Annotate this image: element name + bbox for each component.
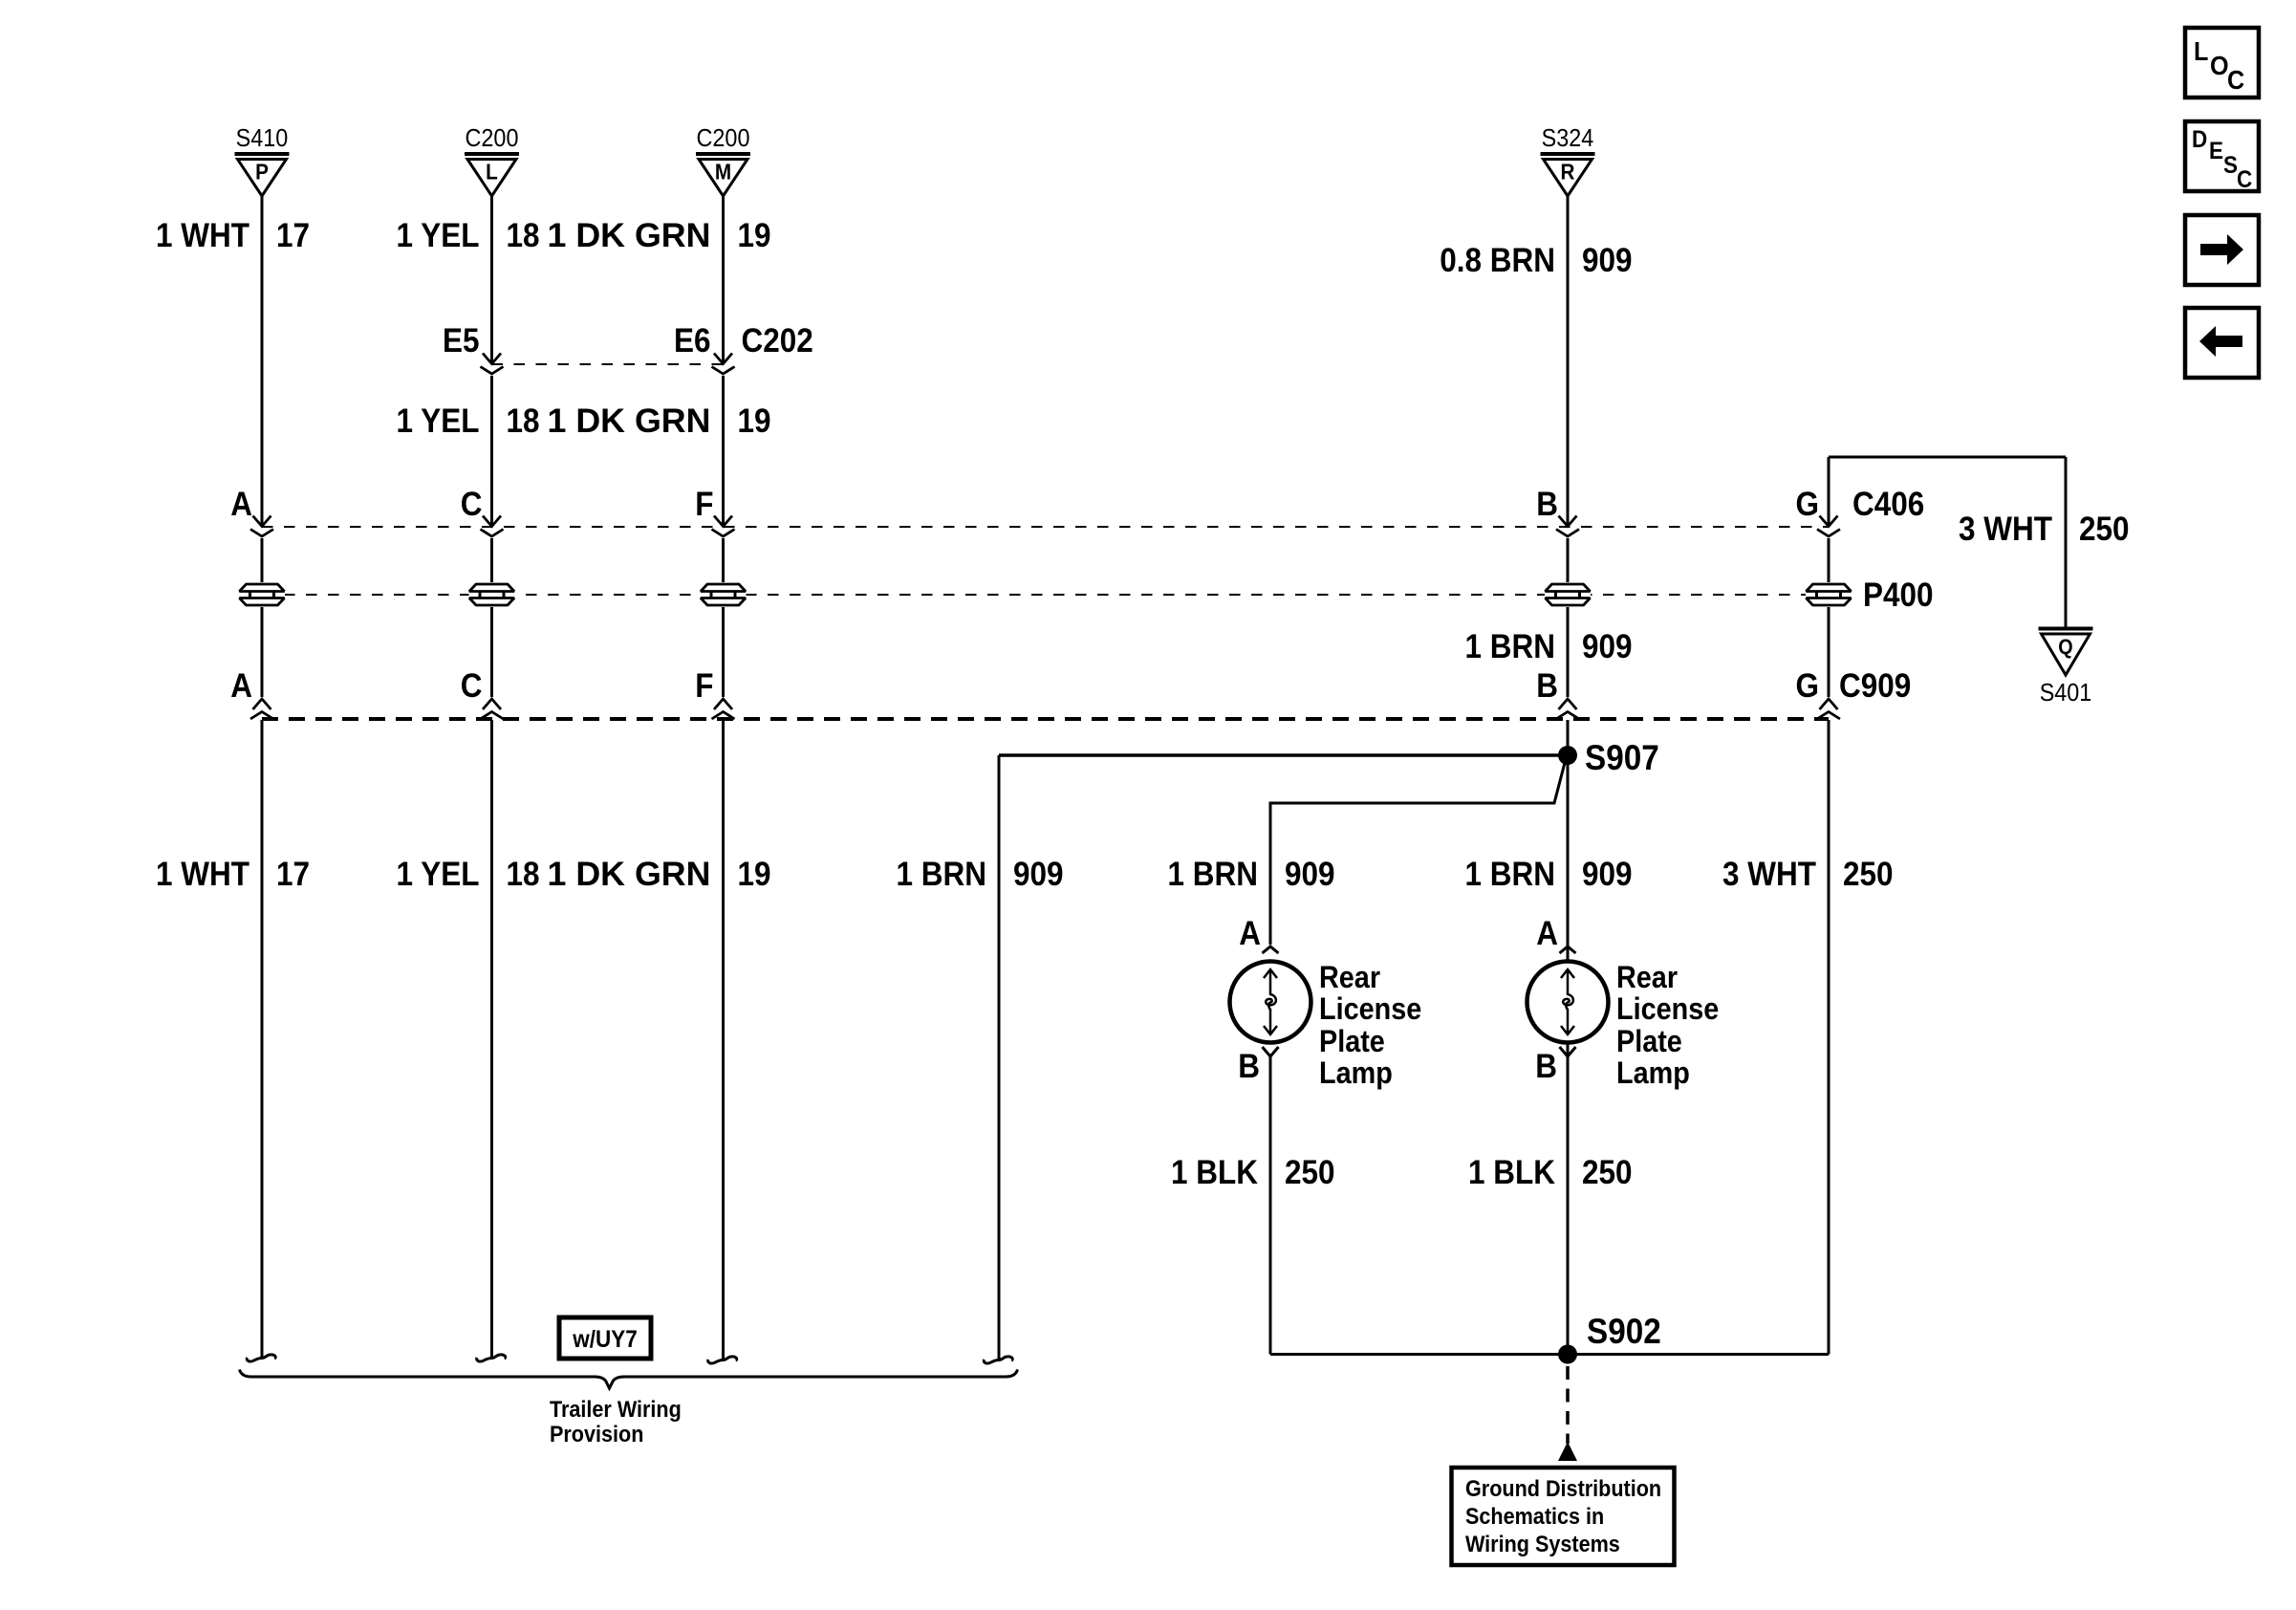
svg-text:1 WHT: 1 WHT (156, 857, 249, 894)
svg-text:C406: C406 (1852, 487, 1924, 524)
svg-text:S410: S410 (236, 125, 289, 152)
svg-text:S902: S902 (1587, 1312, 1661, 1351)
svg-text:S907: S907 (1585, 738, 1659, 777)
svg-text:17: 17 (276, 857, 310, 894)
svg-text:D: D (2192, 126, 2207, 153)
svg-text:C: C (461, 668, 483, 706)
svg-text:1 BRN: 1 BRN (897, 857, 986, 894)
svg-text:3 WHT: 3 WHT (1959, 511, 2052, 549)
svg-text:19: 19 (737, 218, 770, 255)
svg-text:1 DK GRN: 1 DK GRN (547, 218, 710, 255)
svg-text:F: F (695, 487, 713, 524)
svg-text:1 BLK: 1 BLK (1468, 1155, 1555, 1192)
svg-text:Schematics in: Schematics in (1465, 1503, 1604, 1529)
svg-text:C909: C909 (1839, 668, 1911, 706)
svg-text:909: 909 (1013, 857, 1064, 894)
svg-text:C202: C202 (742, 323, 813, 360)
svg-text:License: License (1319, 992, 1421, 1027)
svg-text:License: License (1616, 992, 1719, 1027)
svg-text:P400: P400 (1863, 577, 1934, 615)
svg-text:E5: E5 (443, 323, 480, 360)
svg-text:Lamp: Lamp (1319, 1056, 1393, 1091)
svg-text:1 BRN: 1 BRN (1465, 857, 1555, 894)
svg-text:3 WHT: 3 WHT (1722, 857, 1816, 894)
svg-text:P: P (255, 159, 269, 184)
svg-text:19: 19 (737, 403, 770, 441)
svg-text:Wiring Systems: Wiring Systems (1465, 1531, 1620, 1556)
svg-text:Plate: Plate (1319, 1025, 1385, 1059)
svg-text:1 DK GRN: 1 DK GRN (547, 403, 710, 441)
svg-text:M: M (715, 159, 731, 184)
svg-text:1 YEL: 1 YEL (397, 403, 480, 441)
svg-text:R: R (1561, 159, 1575, 184)
svg-text:1 BLK: 1 BLK (1171, 1155, 1258, 1192)
svg-text:Q: Q (2058, 636, 2072, 659)
svg-text:C200: C200 (697, 125, 750, 152)
svg-text:G: G (1796, 668, 1819, 706)
svg-text:17: 17 (276, 218, 310, 255)
svg-text:C: C (2227, 65, 2244, 96)
svg-text:O: O (2210, 51, 2229, 81)
svg-text:B: B (1238, 1049, 1260, 1086)
svg-text:Trailer Wiring: Trailer Wiring (550, 1396, 682, 1422)
svg-text:250: 250 (1582, 1155, 1633, 1192)
svg-text:Provision: Provision (550, 1421, 643, 1447)
svg-text:18: 18 (506, 218, 539, 255)
svg-text:L: L (486, 159, 498, 184)
svg-text:B: B (1536, 668, 1558, 706)
svg-text:Lamp: Lamp (1616, 1056, 1690, 1091)
svg-text:250: 250 (1285, 1155, 1335, 1192)
svg-text:S324: S324 (1542, 125, 1594, 152)
svg-text:18: 18 (506, 403, 539, 441)
svg-text:19: 19 (737, 857, 770, 894)
svg-text:1 YEL: 1 YEL (397, 218, 480, 255)
svg-text:A: A (230, 487, 252, 524)
svg-text:1 BRN: 1 BRN (1168, 857, 1258, 894)
svg-text:B: B (1535, 1049, 1557, 1086)
svg-text:1 BRN: 1 BRN (1465, 629, 1555, 666)
svg-text:0.8 BRN: 0.8 BRN (1440, 243, 1555, 280)
svg-text:Rear: Rear (1319, 961, 1380, 995)
svg-text:250: 250 (1843, 857, 1894, 894)
svg-text:F: F (695, 668, 713, 706)
svg-text:1 WHT: 1 WHT (156, 218, 249, 255)
svg-text:A: A (1536, 916, 1558, 953)
svg-text:18: 18 (506, 857, 539, 894)
svg-text:909: 909 (1582, 857, 1633, 894)
svg-text:909: 909 (1285, 857, 1335, 894)
svg-text:B: B (1536, 487, 1558, 524)
svg-text:C: C (2237, 166, 2252, 193)
svg-text:S401: S401 (2040, 680, 2092, 707)
svg-text:E: E (2209, 138, 2223, 164)
svg-text:G: G (1796, 487, 1819, 524)
svg-text:S: S (2223, 152, 2238, 179)
svg-text:1 YEL: 1 YEL (397, 857, 480, 894)
svg-text:w/UY7: w/UY7 (572, 1326, 637, 1353)
svg-text:C200: C200 (466, 125, 519, 152)
svg-text:C: C (461, 487, 483, 524)
svg-text:Rear: Rear (1616, 961, 1678, 995)
svg-text:909: 909 (1582, 629, 1633, 666)
svg-text:A: A (1239, 916, 1261, 953)
svg-text:Plate: Plate (1616, 1025, 1682, 1059)
svg-text:250: 250 (2079, 511, 2130, 549)
svg-text:909: 909 (1582, 243, 1633, 280)
svg-text:E6: E6 (674, 323, 711, 360)
svg-text:L: L (2194, 36, 2208, 67)
svg-text:Ground Distribution: Ground Distribution (1465, 1475, 1661, 1501)
svg-text:1 DK GRN: 1 DK GRN (547, 857, 710, 894)
svg-text:A: A (230, 668, 252, 706)
